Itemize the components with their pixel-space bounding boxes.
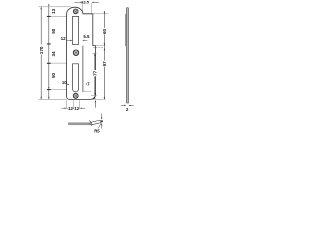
label 60 xyxy=(102,28,106,35)
svg-text:5.5: 5.5 xyxy=(83,34,90,39)
svg-text:34: 34 xyxy=(51,51,56,57)
svg-text:13: 13 xyxy=(51,8,56,14)
strike plate outline xyxy=(67,7,96,99)
dimension chain line xyxy=(48,7,50,100)
svg-text:12: 12 xyxy=(61,36,67,41)
chain arrow bottom xyxy=(48,97,49,99)
ext line 13.5 left xyxy=(82,3,84,12)
chain tick slot2 bottom xyxy=(47,89,51,90)
R5 detail: gray bar xyxy=(68,122,90,125)
extension line slot1 top xyxy=(49,16,73,18)
svg-text:12: 12 xyxy=(74,106,79,111)
dimension 77 line xyxy=(94,53,96,95)
label 97 xyxy=(102,61,106,67)
ext line lip top y45.6 xyxy=(96,45,106,47)
chain arrow slot2 bottom xyxy=(48,87,49,89)
dimension 170 line xyxy=(40,7,42,100)
svg-text:50: 50 xyxy=(51,72,56,78)
dimension 170 label xyxy=(39,45,43,55)
R5 detail: thickness arrows xyxy=(101,114,103,118)
ext line y91.2 xyxy=(83,90,91,92)
chain tick slot1 bottom xyxy=(47,43,51,44)
svg-text:50: 50 xyxy=(51,28,56,34)
dimension 60/97 line xyxy=(103,11,105,99)
svg-text:60: 60 xyxy=(102,28,107,34)
extension line slot2 bottom left xyxy=(49,89,67,91)
ext line hole2 axis y53.2 xyxy=(92,52,97,54)
chain tick slot1 top xyxy=(47,16,51,17)
slot 1 (latch opening) xyxy=(73,16,79,44)
R5 detail: leader dot xyxy=(101,120,103,122)
screw hole 1 xyxy=(73,9,78,14)
R5 detail: lip section xyxy=(91,120,101,125)
ext line right step y13.8 xyxy=(93,13,109,15)
svg-text:12: 12 xyxy=(68,106,73,111)
dimension 13.5 top xyxy=(74,1,81,3)
R5 detail: leader line xyxy=(98,123,101,128)
svg-text:77: 77 xyxy=(92,70,97,76)
extension line slot2 top xyxy=(49,62,67,64)
svg-text:7: 7 xyxy=(87,81,90,86)
extension line top (plate top) xyxy=(39,6,71,8)
lip fold line xyxy=(82,46,84,92)
R5 detail: break mark xyxy=(89,121,92,126)
extension line bottom (plate bottom) xyxy=(39,98,67,100)
svg-text:170: 170 xyxy=(39,46,44,54)
dimension 2 (thickness) xyxy=(121,104,124,106)
ext line bottom right y99.4 xyxy=(91,99,106,101)
chain tick slot2 top xyxy=(47,63,51,64)
svg-text:2: 2 xyxy=(126,107,129,112)
ext line 13.5 right xyxy=(91,3,93,14)
screw hole 3 xyxy=(73,93,78,98)
svg-text:97: 97 xyxy=(102,61,107,67)
dimension 12 12 bottom xyxy=(66,100,68,109)
dash-dot line y47.8 xyxy=(93,47,104,49)
screw hole 2 xyxy=(73,50,79,56)
arrow up at plate bottom xyxy=(95,100,96,102)
chain top outside arrow xyxy=(48,4,49,6)
ext line lip end y94.9 xyxy=(91,95,97,97)
side view plate bar xyxy=(126,8,128,104)
slot 2 (deadbolt opening, U bottom) xyxy=(73,64,79,92)
side view lip line xyxy=(125,14,127,46)
svg-text:R5: R5 xyxy=(94,129,100,134)
